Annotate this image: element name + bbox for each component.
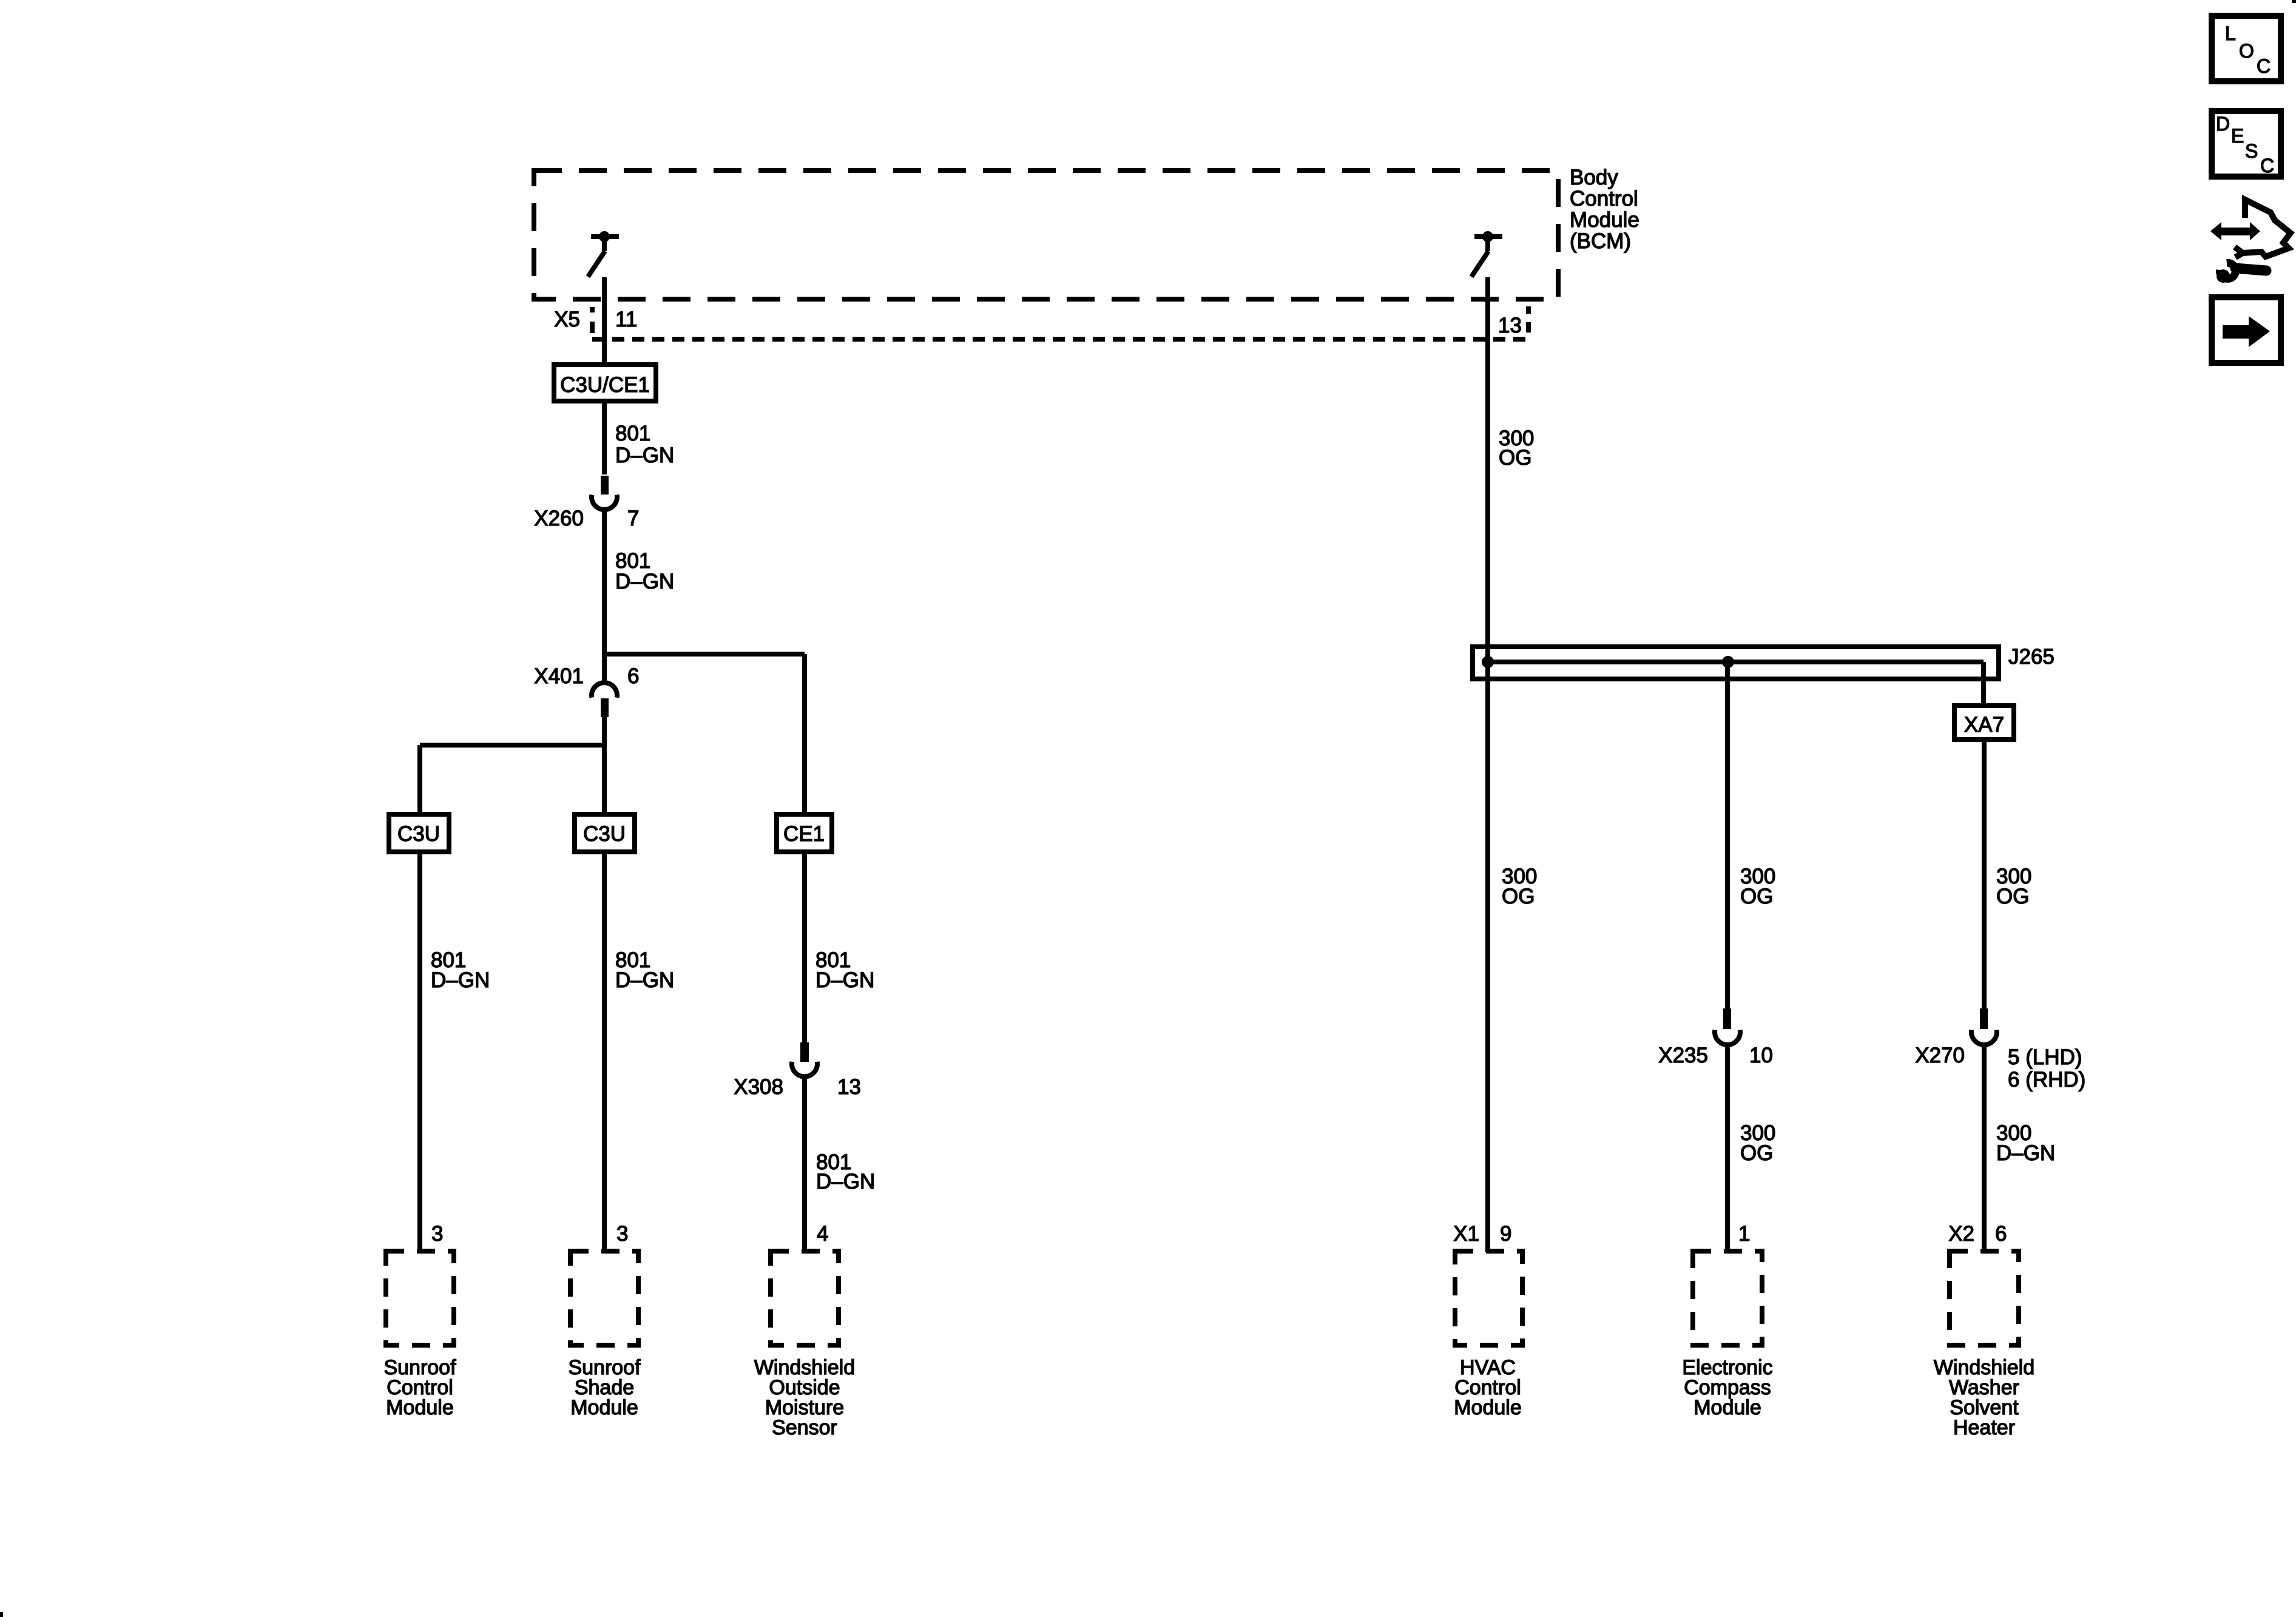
- svg-text:300OG: 300OG: [1996, 865, 2031, 908]
- svg-text:X1: X1: [1453, 1222, 1479, 1246]
- svg-text:C3U: C3U: [583, 822, 626, 846]
- svg-text:6: 6: [627, 664, 639, 688]
- svg-text:X235: X235: [1658, 1044, 1708, 1067]
- svg-text:5 (LHD)6 (RHD): 5 (LHD)6 (RHD): [2008, 1045, 2085, 1092]
- svg-text:SunroofShadeModule: SunroofShadeModule: [568, 1356, 641, 1419]
- svg-text:801D–GN: 801D–GN: [615, 549, 674, 593]
- svg-text:SunroofControlModule: SunroofControlModule: [383, 1356, 456, 1419]
- svg-text:WindshieldWasherSolventHeater: WindshieldWasherSolventHeater: [1934, 1356, 2034, 1439]
- svg-text:X260: X260: [534, 507, 584, 530]
- svg-text:CE1: CE1: [783, 822, 825, 846]
- svg-text:10: 10: [1749, 1044, 1773, 1067]
- svg-text:3: 3: [616, 1222, 628, 1246]
- svg-text:13: 13: [1498, 314, 1522, 337]
- svg-text:C3U: C3U: [397, 822, 440, 846]
- svg-text:ElectronicCompassModule: ElectronicCompassModule: [1682, 1356, 1772, 1419]
- svg-text:S: S: [2245, 140, 2258, 162]
- svg-text:O: O: [2239, 40, 2254, 62]
- svg-text:BodyControlModule(BCM): BodyControlModule(BCM): [1570, 166, 1639, 253]
- svg-text:D: D: [2216, 113, 2230, 135]
- svg-text:J265: J265: [2008, 645, 2055, 669]
- svg-text:801D–GN: 801D–GN: [431, 948, 490, 992]
- svg-text:6: 6: [1995, 1222, 2007, 1246]
- svg-text:13: 13: [837, 1075, 861, 1099]
- svg-text:11: 11: [615, 308, 637, 331]
- svg-text:X2: X2: [1948, 1222, 1974, 1246]
- svg-text:C: C: [2257, 55, 2271, 77]
- svg-text:300OG: 300OG: [1740, 865, 1775, 908]
- svg-text:1: 1: [1738, 1222, 1750, 1246]
- svg-text:801D–GN: 801D–GN: [815, 948, 874, 992]
- svg-text:7: 7: [627, 507, 639, 530]
- svg-text:300D–GN: 300D–GN: [1996, 1121, 2055, 1165]
- svg-text:X308: X308: [734, 1075, 783, 1099]
- svg-text:4: 4: [817, 1222, 828, 1246]
- svg-text:3: 3: [431, 1222, 443, 1246]
- svg-text:XA7: XA7: [1964, 713, 2004, 737]
- svg-text:801D–GN: 801D–GN: [615, 948, 674, 992]
- svg-text:300OG: 300OG: [1502, 865, 1537, 908]
- svg-text:300OG: 300OG: [1740, 1121, 1775, 1165]
- svg-text:801D–GN: 801D–GN: [816, 1150, 875, 1193]
- svg-text:L: L: [2225, 22, 2236, 44]
- svg-text:WindshieldOutsideMoistureSenso: WindshieldOutsideMoistureSensor: [754, 1356, 855, 1439]
- svg-text:X270: X270: [1915, 1044, 1965, 1067]
- svg-text:C3U/CE1: C3U/CE1: [560, 373, 650, 397]
- svg-text:X401: X401: [534, 664, 584, 688]
- svg-text:9: 9: [1500, 1222, 1511, 1246]
- svg-text:300OG: 300OG: [1499, 427, 1534, 470]
- svg-text:X5: X5: [554, 308, 580, 331]
- svg-text:C: C: [2260, 155, 2274, 177]
- svg-text:E: E: [2231, 125, 2244, 147]
- svg-text:HVACControlModule: HVACControlModule: [1454, 1356, 1522, 1419]
- svg-text:801D–GN: 801D–GN: [615, 422, 674, 467]
